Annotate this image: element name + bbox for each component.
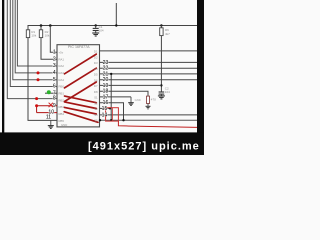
pin 15 wire xyxy=(100,107,111,109)
red box divider xyxy=(111,108,113,121)
svg-text:RA4: RA4 xyxy=(59,78,65,82)
pin 17 wire to ground xyxy=(100,96,132,98)
resistor R1 xyxy=(26,26,29,38)
node dot pin13 joint A xyxy=(110,119,112,121)
svg-text:[491x527] upic.me: [491x527] upic.me xyxy=(88,140,200,152)
pin 14 wire xyxy=(100,114,198,116)
red diagonal A2 xyxy=(65,68,97,88)
red wire bottom right xyxy=(118,121,197,127)
bus wire E (to pin 3) xyxy=(17,0,57,66)
ground at pin17 xyxy=(128,97,134,106)
svg-text:S1: S1 xyxy=(94,96,98,100)
svg-text:GND: GND xyxy=(61,123,67,127)
svg-text:GND: GND xyxy=(135,98,141,102)
bus wire B (to pin 6) xyxy=(10,0,57,87)
svg-text:PIC 16F877A: PIC 16F877A xyxy=(68,45,90,49)
left pin numbers xyxy=(46,49,56,120)
ground under C2 xyxy=(158,96,165,99)
left inside pin labels xyxy=(59,50,68,127)
red dot pin8 xyxy=(35,97,38,100)
node dot reset xyxy=(160,84,162,86)
node dot rail-R2 xyxy=(40,24,43,27)
node dot rail-pin1 xyxy=(49,24,52,27)
red diagonal B4 xyxy=(64,112,98,123)
pin 16 wire L xyxy=(100,103,124,121)
node dot pin13 joint B xyxy=(122,119,124,121)
node dot rail-R6 xyxy=(160,24,162,26)
svg-text:11: 11 xyxy=(46,115,51,121)
svg-text:D4: D4 xyxy=(94,67,98,71)
svg-text:D6: D6 xyxy=(94,78,98,82)
pin21 branch vertical xyxy=(110,74,112,120)
vcc stub vertical xyxy=(115,3,117,26)
node dot rail-stub xyxy=(115,24,117,26)
wire R1 to pin 11 xyxy=(28,38,57,121)
svg-text:5: 5 xyxy=(53,77,56,83)
red vertical 9-10 xyxy=(36,106,38,113)
IC U1 box xyxy=(57,45,100,127)
pin 23 wire xyxy=(100,61,198,63)
svg-text:+5v: +5v xyxy=(59,50,64,54)
node dot pin15 xyxy=(109,107,111,109)
pin 18 wire to R7 xyxy=(100,91,149,96)
svg-text:104: 104 xyxy=(165,90,170,94)
ground under C1 xyxy=(92,33,99,36)
svg-text:S4: S4 xyxy=(94,113,98,117)
left black border bar xyxy=(2,0,4,133)
svg-text:S5: S5 xyxy=(94,119,98,123)
right black border bar xyxy=(197,0,204,155)
svg-text:104: 104 xyxy=(99,28,104,32)
right pin numbers xyxy=(102,60,109,119)
bus wire A (to pin 8) xyxy=(7,0,57,99)
svg-text:D3: D3 xyxy=(94,61,98,65)
resistor R6 xyxy=(160,26,163,36)
ground at pin11 xyxy=(48,120,54,128)
red dot pin9 xyxy=(35,104,38,107)
pin 25 wire xyxy=(100,50,198,52)
svg-text:4k7: 4k7 xyxy=(165,32,170,36)
red diagonal A3 xyxy=(65,82,97,102)
svg-text:470: 470 xyxy=(151,98,156,102)
svg-text:RB2: RB2 xyxy=(59,98,65,102)
pin 1 wire from rail xyxy=(50,26,57,53)
svg-text:D2: D2 xyxy=(94,55,98,59)
svg-text:RB1: RB1 xyxy=(59,92,65,96)
svg-text:15: 15 xyxy=(102,106,108,112)
right inside pin labels xyxy=(94,50,98,123)
svg-text:1: 1 xyxy=(53,49,56,55)
red diagonal B1 xyxy=(65,96,97,103)
capacitor C1 xyxy=(93,26,99,33)
svg-text:D7: D7 xyxy=(94,84,98,88)
bottom black banner xyxy=(0,132,204,155)
svg-text:8: 8 xyxy=(53,96,56,102)
pin 22 wire xyxy=(100,67,198,69)
bus wire D (to pin 4) xyxy=(15,0,57,73)
svg-text:10k: 10k xyxy=(45,34,50,38)
bus wire C (to pin 5) xyxy=(13,0,57,80)
svg-text:10k: 10k xyxy=(31,34,36,38)
red diagonal B3 xyxy=(65,107,97,114)
svg-text:RA3: RA3 xyxy=(59,71,65,75)
pin 19 wire to reset node xyxy=(100,84,162,86)
pin 13 wire xyxy=(100,119,198,121)
pin 10 wire (red) xyxy=(37,112,57,114)
svg-text:D1: D1 xyxy=(94,50,98,54)
svg-text:S2: S2 xyxy=(94,101,98,105)
svg-text:9: 9 xyxy=(53,103,56,109)
svg-text:D5: D5 xyxy=(94,73,98,77)
capacitor C2 xyxy=(159,92,165,96)
svg-text:2: 2 xyxy=(53,56,56,62)
green dot pin7 xyxy=(47,90,51,94)
red diagonal B2 xyxy=(65,102,97,109)
pin 9 wire (red) xyxy=(37,105,57,107)
svg-text:6: 6 xyxy=(53,83,56,89)
node dot pin21 xyxy=(110,73,112,75)
pin 21 wire + L path xyxy=(100,73,198,75)
red X over pin 9 xyxy=(49,103,53,107)
svg-text:RB4: RB4 xyxy=(59,112,65,116)
svg-text:3: 3 xyxy=(53,63,56,69)
red diagonal A1 xyxy=(65,54,97,74)
pin 7 stub xyxy=(45,92,57,94)
svg-text:RA2: RA2 xyxy=(59,64,65,68)
svg-text:S3: S3 xyxy=(94,107,98,111)
node dot rail-C1 xyxy=(95,24,97,26)
red highlight box pins 14-15 xyxy=(106,108,119,121)
wire R2 to pin 2 xyxy=(41,38,57,60)
resistor R2 xyxy=(39,26,42,38)
R7 lower stub + ground xyxy=(146,104,151,109)
pin 20 wire xyxy=(100,79,198,81)
wire R6 down to reset node xyxy=(160,36,162,92)
svg-text:RA1: RA1 xyxy=(59,57,65,61)
svg-text:14: 14 xyxy=(102,112,108,118)
svg-text:RB0: RB0 xyxy=(59,85,65,89)
svg-text:RB3: RB3 xyxy=(59,105,65,109)
red dot pin5 xyxy=(37,78,40,81)
red dot pin4 xyxy=(37,71,40,74)
node dot box corner xyxy=(99,119,101,121)
resistor R7 xyxy=(147,96,150,103)
svg-text:D8: D8 xyxy=(94,90,98,94)
VCC rail xyxy=(28,25,198,27)
svg-text:4: 4 xyxy=(53,70,56,76)
